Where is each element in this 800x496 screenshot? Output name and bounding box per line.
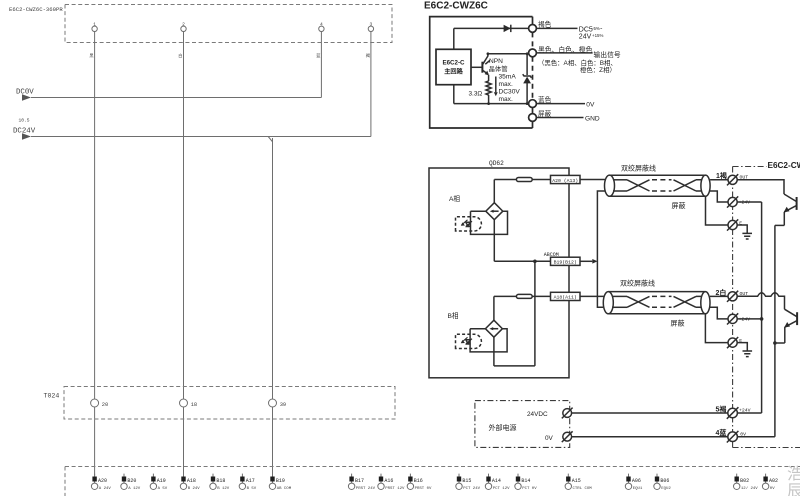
svg-text:A20 (A13): A20 (A13) xyxy=(552,178,578,184)
wire B down to opto xyxy=(493,296,495,320)
svg-text:max.: max. xyxy=(499,96,513,103)
T024 terminal 20 xyxy=(91,399,109,408)
label NPN transistor xyxy=(485,61,490,65)
wire left branch bottom xyxy=(453,85,455,104)
wire cable A lower to +24V xyxy=(710,191,728,202)
outer box right edge dashed segment 2 xyxy=(532,57,534,100)
terminal 4 0V xyxy=(727,431,739,443)
svg-text:0V: 0V xyxy=(586,102,595,109)
power terminal 24V xyxy=(562,408,573,419)
pin 3 xyxy=(368,22,373,32)
svg-text:B06: B06 xyxy=(660,478,669,484)
svg-text:20: 20 xyxy=(102,402,108,408)
pin 2 xyxy=(181,22,186,32)
svg-text:0V: 0V xyxy=(545,435,554,442)
cable B twist cross 1 xyxy=(627,296,650,307)
svg-text:EQU1: EQU1 xyxy=(633,487,643,491)
connector pin B20 xyxy=(121,474,141,491)
encoder internal circuit outer box xyxy=(430,17,533,128)
DC0V arrow xyxy=(22,94,31,101)
wire brown to power label xyxy=(536,27,577,29)
svg-text:屏蔽: 屏蔽 xyxy=(672,201,686,210)
svg-text:A02: A02 xyxy=(769,478,778,484)
svg-text:外部电源: 外部电源 xyxy=(489,423,517,432)
junction ABCOM dot xyxy=(533,260,537,264)
ground B xyxy=(737,343,752,357)
connector pin A02 xyxy=(762,474,778,491)
svg-text:A15: A15 xyxy=(572,478,581,484)
connector pin B06 xyxy=(654,474,672,491)
svg-text:A19: A19 xyxy=(157,478,166,484)
junction arrow ABCOM to cable xyxy=(592,259,597,264)
wire pin1 to A20 (A phase, black) xyxy=(94,32,96,476)
terminal OUT1 xyxy=(727,174,738,185)
DC24V arrow xyxy=(22,133,31,140)
svg-text:PRST 0V: PRST 0V xyxy=(415,487,432,491)
wire A opto to ABCOM xyxy=(493,220,495,262)
svg-text:B相: B相 xyxy=(448,311,459,320)
svg-text:A14: A14 xyxy=(492,478,501,484)
outer box right edge solid segment top xyxy=(532,17,534,25)
connector pin B18 xyxy=(210,474,230,491)
connector pin A17 xyxy=(239,474,257,491)
svg-text:+15%: +15% xyxy=(592,33,603,38)
svg-text:A16: A16 xyxy=(384,478,393,484)
svg-text:屏蔽: 屏蔽 xyxy=(538,109,552,118)
svg-text:PRST 24V: PRST 24V xyxy=(356,487,376,491)
connector pin A20 xyxy=(91,474,111,491)
cable A twist cross 1 xyxy=(627,180,650,191)
optocoupler B light arrows xyxy=(461,337,472,344)
svg-text:PCT 0V: PCT 0V xyxy=(522,487,537,491)
connector pin A16 xyxy=(378,474,405,491)
svg-text:A 5V: A 5V xyxy=(158,487,168,491)
optocoupler B body rect xyxy=(470,329,507,352)
svg-text:双绞屏蔽线: 双绞屏蔽线 xyxy=(620,279,655,288)
svg-text:GND: GND xyxy=(585,116,600,123)
connector pin B14 xyxy=(515,474,537,491)
svg-text:DC0V: DC0V xyxy=(16,89,34,97)
svg-text:主回路: 主回路 xyxy=(444,68,463,76)
connector pin A06 xyxy=(625,474,643,491)
cable B body xyxy=(608,292,705,314)
wire shield B to E xyxy=(705,314,728,343)
wire cable B upper to OUT2 xyxy=(710,295,728,297)
connector pin A18 xyxy=(180,474,200,491)
junction 0V bus B xyxy=(773,341,777,345)
wire cable A upper to OUT1 xyxy=(710,179,728,181)
dash-dot encoder boundary vertical xyxy=(732,167,734,448)
svg-text:白: 白 xyxy=(178,52,182,59)
connector pin B15 xyxy=(456,474,481,491)
wire blue to 0V xyxy=(536,103,585,105)
wire output line to black terminal xyxy=(488,53,529,55)
terminal blue xyxy=(529,100,537,108)
wire pin4 stub (blue) xyxy=(320,32,322,98)
wire ABCOM riser up to junction xyxy=(534,261,536,366)
wire 4 to 0V bus xyxy=(737,436,775,438)
wire DC24V branch to B19 AB COM xyxy=(272,138,274,476)
connector strip dashed box top edge xyxy=(65,466,800,468)
svg-text:10.5: 10.5 xyxy=(19,118,30,124)
svg-text:A06: A06 xyxy=(632,478,641,484)
wire A20 box to cable xyxy=(580,179,605,181)
svg-text:B15: B15 xyxy=(462,478,471,484)
svg-text:B 5V: B 5V xyxy=(247,487,257,491)
optocoupler A receiver dashed stadium xyxy=(456,217,482,231)
svg-text:辰: 辰 xyxy=(787,483,800,496)
svg-text:晶体管: 晶体管 xyxy=(489,64,508,73)
outer box right edge solid segment bottom xyxy=(532,121,534,128)
cable B dashed middle xyxy=(652,296,672,307)
svg-text:PCT 24V: PCT 24V xyxy=(463,487,480,491)
wire DC0V net xyxy=(31,97,321,99)
outer box right edge segment 3 xyxy=(532,108,534,114)
svg-text:12/ 24V: 12/ 24V xyxy=(741,486,758,491)
wire DC24V branch junction notch xyxy=(268,137,272,142)
cable A body xyxy=(610,175,706,196)
wire B opto down xyxy=(493,337,495,366)
cable A wire lower-left entry xyxy=(613,190,627,192)
svg-text:浩: 浩 xyxy=(787,465,800,483)
connector pin A14 xyxy=(485,474,510,491)
terminal black/white/orange xyxy=(529,49,537,57)
cable A dashed middle xyxy=(652,180,672,191)
T024 terminal 39 xyxy=(269,399,287,408)
T024 terminal dashed box xyxy=(64,387,395,420)
junction zener-bottom wire xyxy=(526,102,529,105)
svg-text:A18(A11): A18(A11) xyxy=(554,295,577,301)
svg-text:B20: B20 xyxy=(127,478,136,484)
svg-text:（黑色：A相、白色：B相、: （黑色：A相、白色：B相、 xyxy=(538,58,617,67)
label DC5-24V supply xyxy=(579,26,604,41)
svg-text:PCT 12V: PCT 12V xyxy=(493,487,510,491)
optocoupler B diamond xyxy=(485,320,502,337)
power terminal 0V xyxy=(562,431,573,442)
zener diode clamp xyxy=(523,54,532,104)
cable B twist cross 2 xyxy=(674,296,697,307)
external power dash-dot box xyxy=(475,401,570,448)
terminal E A xyxy=(727,219,738,230)
svg-text:黑: 黑 xyxy=(89,53,93,59)
svg-text:2白: 2白 xyxy=(716,288,727,297)
transistor output A xyxy=(784,194,797,225)
svg-text:5褐: 5褐 xyxy=(716,404,727,413)
svg-text:18: 18 xyxy=(191,402,197,408)
svg-text:T024: T024 xyxy=(44,393,60,400)
optocoupler A light arrows xyxy=(461,220,472,227)
connector strip dashed box left edge xyxy=(64,467,66,496)
svg-text:蓝色: 蓝色 xyxy=(538,95,552,104)
svg-text:A相: A相 xyxy=(449,194,460,203)
junction +24V bus B xyxy=(760,317,764,321)
svg-text:双绞屏蔽线: 双绞屏蔽线 xyxy=(621,164,656,173)
svg-text:B19: B19 xyxy=(276,478,285,484)
cable B wire right exits xyxy=(696,296,701,307)
cable A left ellipse xyxy=(605,175,615,196)
pin 1 xyxy=(92,22,97,32)
connector pin B02 xyxy=(734,474,759,491)
svg-text:39: 39 xyxy=(280,402,286,408)
svg-text:max.: max. xyxy=(499,81,513,88)
resistor 3.3ohm xyxy=(486,81,491,104)
cable A right ellipse xyxy=(701,175,710,196)
svg-text:3.3Ω: 3.3Ω xyxy=(469,91,483,98)
svg-text:PRST 12V: PRST 12V xyxy=(385,487,405,491)
dash-dot encoder boundary top xyxy=(733,166,767,168)
connector pin A19 xyxy=(150,474,168,491)
svg-text:CTRL COM: CTRL COM xyxy=(573,487,593,491)
wire emitter A to 0V bus xyxy=(775,224,784,226)
QD62 module box xyxy=(429,168,569,378)
wire pin2 to A18 (B phase, white) xyxy=(183,32,185,476)
wire power 24V to encoder 5 xyxy=(572,412,728,414)
wire shield to GND xyxy=(536,117,583,119)
wire power 0V to encoder 4 xyxy=(572,436,728,438)
svg-text:4蓝: 4蓝 xyxy=(716,428,727,437)
terminal box B19(B12) xyxy=(551,257,581,265)
wire B19 to junction arrow xyxy=(580,260,592,262)
current direction arrow xyxy=(494,77,498,97)
wire top supply line xyxy=(454,27,529,29)
wire ABCOM horizontal xyxy=(494,260,550,262)
connector pin B16 xyxy=(407,474,432,491)
svg-text:0V: 0V xyxy=(770,487,775,491)
transistor output B xyxy=(784,309,797,343)
svg-text:B16: B16 xyxy=(414,478,423,484)
svg-text:QD62: QD62 xyxy=(489,160,504,167)
cable B wire upper-left entry xyxy=(613,295,627,297)
wire DC24V net xyxy=(31,136,371,138)
wire +24V A to bus xyxy=(737,201,761,203)
junction zener-top wire xyxy=(526,52,529,55)
ground A xyxy=(737,225,752,239)
connector pin B19 xyxy=(269,474,291,491)
svg-text:褐色: 褐色 xyxy=(538,20,552,29)
dash-dot encoder boundary bottom xyxy=(733,447,800,449)
svg-text:输出信号: 输出信号 xyxy=(594,50,621,59)
svg-text:A 24V: A 24V xyxy=(99,487,112,491)
wire cable B lower to +24V B xyxy=(710,307,728,319)
wire 5 to +24V bus xyxy=(737,412,761,414)
svg-text:B14: B14 xyxy=(521,478,530,484)
wire bottom 0V line xyxy=(454,103,529,105)
cable A wire upper-left entry xyxy=(614,179,627,181)
connector pin A15 xyxy=(565,474,592,491)
terminal brown xyxy=(529,25,537,33)
cable B wire lower-left entry xyxy=(612,306,627,308)
outer box right edge dashed segment 1 xyxy=(532,32,534,49)
svg-text:A18: A18 xyxy=(187,478,196,484)
terminal OUT2 xyxy=(727,291,738,302)
wire +24V B to bus xyxy=(737,318,761,320)
terminal 5 +24V xyxy=(727,407,739,419)
svg-text:35mA: 35mA xyxy=(499,74,517,81)
svg-text:24VDC: 24VDC xyxy=(527,411,548,418)
terminal box A18(A11) xyxy=(551,292,581,300)
terminal E B xyxy=(727,337,738,348)
wire 0V bus xyxy=(774,225,776,436)
svg-text:DC30V: DC30V xyxy=(499,88,521,95)
optocoupler B arrow xyxy=(489,327,498,330)
wire B-phase input xyxy=(494,295,551,297)
optocoupler A diamond xyxy=(486,203,503,220)
pin 4 xyxy=(319,22,324,32)
wire emitter B to 0V bus xyxy=(775,342,785,344)
wire A-phase input xyxy=(494,179,550,181)
junction emitter-bottom wire xyxy=(487,102,490,105)
svg-text:蓝: 蓝 xyxy=(316,52,320,59)
wire left branch top xyxy=(453,28,455,49)
svg-text:E6C2-C: E6C2-C xyxy=(442,60,465,67)
wire B opto bottom to ABCOM riser xyxy=(494,365,535,367)
optocoupler B receiver dashed stadium xyxy=(456,334,482,348)
wire pin3 stub (brown) xyxy=(370,32,372,137)
transistor Q1 NPN output xyxy=(471,54,489,81)
svg-text:B 12V: B 12V xyxy=(217,487,230,491)
wire OUT2 to transistor with crossover humps xyxy=(737,293,784,309)
diode D1 on supply line xyxy=(504,25,511,32)
svg-text:AB COM: AB COM xyxy=(277,487,292,491)
svg-text:24V: 24V xyxy=(579,33,592,40)
optocoupler A arrow xyxy=(490,210,499,213)
connector pin B17 xyxy=(348,474,375,491)
svg-text:A20: A20 xyxy=(98,478,107,484)
fuse B inline xyxy=(516,294,532,298)
svg-text:B 24V: B 24V xyxy=(188,487,201,491)
wire A18 box to cable xyxy=(580,295,604,297)
cable B left ellipse xyxy=(603,292,613,314)
svg-text:B17: B17 xyxy=(355,478,364,484)
wire +24V bus xyxy=(761,202,763,413)
svg-text:E6C2-CWZ6C: E6C2-CWZ6C xyxy=(424,1,488,12)
svg-text:1褐: 1褐 xyxy=(716,171,727,180)
fuse A inline xyxy=(516,178,532,182)
wire output signal line xyxy=(536,52,592,54)
wire OUT1 to transistor collector xyxy=(737,180,784,194)
svg-text:褐: 褐 xyxy=(366,52,370,59)
svg-text:B18: B18 xyxy=(216,478,225,484)
svg-text:EQU2: EQU2 xyxy=(661,487,671,491)
svg-text:A 12V: A 12V xyxy=(128,487,141,491)
junction collector-top wire xyxy=(487,52,490,55)
svg-text:屏蔽: 屏蔽 xyxy=(671,319,685,328)
cable A twist cross 2 xyxy=(674,180,697,191)
svg-text:橙色：Z相）: 橙色：Z相） xyxy=(580,65,616,74)
cable A wire right exits xyxy=(696,180,702,191)
wire A down to opto xyxy=(493,180,495,203)
box E6C2-C main circuit xyxy=(436,49,471,84)
terminal +24V A xyxy=(727,196,738,207)
svg-text:NPN: NPN xyxy=(489,58,503,65)
wire ABCOM from cable A lower wire xyxy=(597,191,604,307)
terminal box A20 (A13) xyxy=(551,175,581,183)
svg-text:B02: B02 xyxy=(740,478,749,484)
svg-text:E6C2-CWZ6C-360PR: E6C2-CWZ6C-360PR xyxy=(9,6,63,13)
cable B right ellipse xyxy=(701,292,710,314)
svg-text:A17: A17 xyxy=(246,478,255,484)
svg-text:-5%~: -5%~ xyxy=(592,26,603,31)
wire shield A to E xyxy=(706,196,729,225)
svg-text:B19(B12): B19(B12) xyxy=(554,260,577,266)
T024 terminal 18 xyxy=(180,399,198,408)
optocoupler A body rect xyxy=(471,211,508,234)
terminal +24V B xyxy=(727,313,738,324)
encoder connector dashed box xyxy=(65,5,392,43)
svg-text:E6C2-CW: E6C2-CW xyxy=(768,161,800,170)
terminal shield xyxy=(529,114,537,122)
